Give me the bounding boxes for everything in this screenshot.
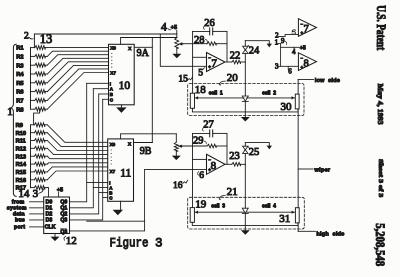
- label 24: [248, 45, 260, 56]
- wire output down to cell 1: [244, 62, 246, 96]
- multiplexer U10 box: [109, 44, 135, 105]
- margin patent number: [373, 223, 387, 266]
- svg-text:1: 1: [275, 39, 279, 47]
- label pin 4: [292, 48, 296, 56]
- brace terminal 1: [11, 44, 17, 196]
- svg-text:+5: +5: [57, 187, 63, 193]
- wire tap R3 to 9A X2: [47, 55, 108, 65]
- svg-text:X: X: [128, 46, 132, 51]
- label 23: [229, 151, 240, 162]
- label 6: [198, 171, 205, 181]
- wire data bus D0: [30, 201, 44, 203]
- multiplexer U11 box: [108, 139, 134, 201]
- wire tap R9 to 9B X0: [47, 125, 107, 143]
- wire tap R2 to 9A X1: [47, 51, 108, 56]
- wire output down to cell 3: [244, 164, 246, 208]
- svg-text:21: 21: [227, 186, 238, 198]
- svg-text:25: 25: [249, 147, 259, 158]
- svg-text:4: 4: [161, 22, 167, 34]
- svg-text:27: 27: [203, 120, 214, 131]
- label cell 2: [262, 91, 276, 97]
- svg-text:port: port: [14, 225, 25, 231]
- svg-text:5,208,548: 5,208,548: [373, 223, 387, 266]
- register U12 box: [44, 197, 70, 234]
- wire pot 15 to ground: [176, 48, 178, 54]
- svg-text:29: 29: [193, 135, 204, 146]
- comparator 7 designator: [304, 24, 309, 35]
- resistor 28: [193, 42, 227, 46]
- wire tap R8 to 9A X7: [47, 73, 108, 110]
- svg-text:cell 2: cell 2: [262, 91, 276, 97]
- mux 9A pin label X0: [110, 45, 116, 50]
- text from: [12, 199, 25, 205]
- svg-text:28: 28: [194, 35, 205, 46]
- wire +5 to pot 15: [176, 30, 178, 37]
- svg-text:13: 13: [40, 32, 53, 46]
- resistor R16: [16, 178, 48, 184]
- wire tap R10 to 9B X1: [47, 133, 107, 147]
- wire wiper bus: [297, 80, 299, 232]
- svg-text:2: 2: [24, 31, 29, 41]
- register Q3-bar label: [60, 229, 67, 236]
- svg-text:C: C: [109, 196, 113, 201]
- wire wiper node ch2: [180, 145, 192, 147]
- wire rail to pot 16: [121, 134, 177, 139]
- margin date: [376, 84, 385, 125]
- wire to op-amp 8 -input: [192, 158, 206, 160]
- svg-text:Sheet 3 of 3: Sheet 3 of 3: [377, 159, 384, 197]
- node 13 label: [40, 32, 53, 46]
- svg-text:X7: X7: [110, 70, 116, 75]
- svg-text:X0: X0: [110, 45, 116, 50]
- ground register: [51, 237, 60, 242]
- text data: [13, 212, 25, 218]
- svg-text:X0: X0: [110, 142, 116, 147]
- svg-text:9: 9: [281, 37, 285, 45]
- wire vertical bus A: [151, 38, 153, 143]
- op-amp U8: [207, 154, 226, 174]
- svg-text:R14: R14: [16, 162, 27, 168]
- wire op-amp 8 output: [225, 163, 232, 165]
- wire pin 2 to comparator 7: [278, 34, 298, 36]
- label 28: [194, 35, 207, 46]
- potentiometer 15: [175, 38, 179, 49]
- svg-text:U.S. Patent: U.S. Patent: [374, 5, 388, 51]
- svg-text:+5: +5: [300, 45, 306, 51]
- resistor R1: [16, 46, 47, 52]
- wire feedback right vertical: [226, 31, 228, 62]
- node 9 label: [281, 37, 287, 45]
- wire series bus left upper: [30, 48, 32, 110]
- wire select Q3 to mux pins: [70, 99, 109, 220]
- svg-text:30: 30: [281, 101, 293, 113]
- svg-text:R3: R3: [16, 63, 23, 69]
- ground pot 16: [172, 156, 181, 161]
- power +5 upper: [171, 25, 177, 31]
- svg-text:1: 1: [7, 106, 13, 118]
- svg-text:C: C: [110, 97, 114, 102]
- mux 9A select pin labels: [110, 81, 114, 102]
- label pin 2: [275, 31, 279, 39]
- wire to op-amp 8 +input: [145, 168, 207, 170]
- label 25: [248, 147, 259, 158]
- label pin 3: [275, 62, 279, 70]
- wire select Q0 to mux pins: [70, 83, 109, 202]
- label cell 1: [209, 91, 223, 97]
- mux 9A pin label X7: [110, 70, 116, 75]
- wire feedback left vertical: [192, 31, 194, 93]
- op-amp 8 designator: [211, 160, 217, 172]
- wire tap R5 to 9A X4: [47, 62, 108, 83]
- resistor R14: [16, 162, 48, 168]
- svg-text:B: B: [110, 92, 113, 97]
- svg-text:May 4, 1993: May 4, 1993: [376, 84, 385, 125]
- wire clamp to wiper arrow ch2: [245, 143, 269, 146]
- svg-text:X7: X7: [110, 169, 116, 174]
- svg-text:X: X: [128, 141, 132, 146]
- svg-text:R9: R9: [16, 123, 23, 129]
- resistor R4: [16, 72, 47, 78]
- wiper tap arrow ch1: [267, 44, 272, 48]
- svg-text:9A: 9A: [137, 48, 150, 59]
- wire rail down to R1: [33, 34, 35, 48]
- svg-text:7: 7: [304, 24, 309, 35]
- mux 9A designator 10: [119, 80, 131, 92]
- label 9B: [140, 146, 152, 157]
- svg-text:Q3: Q3: [60, 218, 67, 224]
- resistor R11: [16, 139, 48, 145]
- svg-text:high side: high side: [316, 231, 344, 237]
- svg-text:R15: R15: [16, 170, 26, 176]
- svg-text:R16: R16: [16, 178, 26, 184]
- wire vertical B to op-amp 7 +input: [160, 34, 206, 66]
- wire clamp to wiper arrow ch1: [245, 41, 269, 44]
- resistor cell 4: [295, 208, 299, 223]
- svg-text:15: 15: [178, 75, 188, 85]
- op-amp 7 designator: [211, 57, 217, 69]
- svg-text:9B: 9B: [140, 146, 152, 157]
- svg-text:18: 18: [195, 84, 207, 96]
- wire diode row 2 to ground: [244, 213, 246, 230]
- svg-text:A: A: [110, 87, 114, 92]
- mux 9A ground: [116, 105, 127, 113]
- capacitor 27: [192, 130, 227, 137]
- label 18: [195, 84, 207, 96]
- svg-text:bus: bus: [15, 218, 25, 224]
- svg-text:R1: R1: [16, 46, 23, 52]
- svg-text:I: I: [110, 81, 111, 86]
- resistor R7: [16, 98, 47, 104]
- wire output junction up: [244, 53, 246, 62]
- ground pot 15: [172, 54, 181, 59]
- power +5 comparator: [300, 45, 306, 51]
- svg-text:+5: +5: [171, 25, 177, 31]
- wire feedback left vertical ch2: [191, 133, 193, 207]
- wire pot 16 to ground: [175, 151, 177, 155]
- pot 15 wiper arrow: [179, 42, 183, 45]
- resistor R15: [16, 170, 48, 176]
- label pin 5 curl: [292, 30, 296, 34]
- svg-text:8: 8: [304, 58, 309, 69]
- wire diode row 1 to ground: [244, 101, 246, 117]
- wire +5 row: [281, 47, 299, 50]
- comparator U7b: [298, 19, 316, 37]
- wire select Q2 to mux pins: [70, 94, 109, 214]
- mux 9B ground: [113, 201, 124, 215]
- margin U.S. Patent: [374, 5, 388, 51]
- terminal low side: [298, 78, 340, 84]
- wire feedback right vertical ch2: [226, 133, 228, 164]
- wire stub over 9A to pot 15: [121, 38, 177, 45]
- mux 9A output pin X: [128, 46, 132, 51]
- svg-text:R7: R7: [16, 99, 23, 105]
- wiper tap arrow ch2: [267, 146, 272, 150]
- resistor 22: [232, 60, 246, 64]
- wire staircase to op-amp 8 input: [87, 169, 145, 221]
- wire tap R14 to 9B X5: [47, 163, 107, 164]
- register CLK label: [45, 224, 56, 230]
- diode pair 24: [243, 41, 248, 54]
- svg-text:12: 12: [66, 235, 77, 247]
- label 12: [64, 235, 77, 247]
- wire Q3-bar run: [70, 221, 145, 231]
- label 9A: [137, 48, 150, 59]
- ground cell row 2: [241, 230, 250, 235]
- svg-text:8: 8: [211, 160, 217, 172]
- wire clk: [30, 226, 44, 228]
- svg-text:23: 23: [229, 151, 240, 162]
- label 21: [219, 186, 237, 200]
- svg-text:22: 22: [230, 50, 241, 61]
- caption Figure 3: [110, 237, 163, 251]
- svg-text:24: 24: [249, 45, 260, 56]
- label cell 4: [262, 204, 276, 210]
- resistor R17: [16, 186, 48, 192]
- svg-text:CLK: CLK: [45, 224, 56, 230]
- label 20: [219, 72, 238, 86]
- svg-text:26: 26: [204, 18, 215, 29]
- wire series bus left lower: [30, 125, 32, 188]
- svg-text:system: system: [7, 205, 27, 211]
- mux 9B output pin X: [128, 141, 132, 146]
- label 15: [178, 75, 192, 85]
- resistor R8: [16, 107, 47, 113]
- power +5 register: [57, 187, 63, 197]
- svg-text:R11: R11: [16, 139, 26, 145]
- node 1 label: [7, 106, 13, 118]
- svg-text:11: 11: [120, 168, 131, 180]
- wire data bus D2: [30, 213, 44, 215]
- wire comparator bus vertical: [280, 44, 282, 67]
- svg-text:R4: R4: [16, 72, 24, 78]
- svg-text:low side: low side: [315, 78, 340, 84]
- svg-text:6: 6: [199, 171, 204, 181]
- svg-text:19: 19: [195, 199, 207, 211]
- wire data bus D1: [30, 207, 44, 209]
- resistor R13: [16, 154, 48, 160]
- svg-text:Figure: Figure: [110, 237, 149, 251]
- wire series link R8-R9: [34, 109, 40, 125]
- dashed cell box 1-2: [188, 84, 304, 116]
- mux 9A input dots: [111, 53, 112, 68]
- label 3 bus: [33, 188, 44, 200]
- potentiometer 16: [174, 134, 178, 151]
- diode cell row 2: [242, 208, 248, 213]
- label pin 6: [288, 67, 292, 75]
- terminal high side: [298, 231, 344, 237]
- wire select Q1 to mux pins: [70, 89, 109, 208]
- resistor R2: [16, 54, 47, 60]
- label 26: [203, 18, 214, 29]
- wire tap R7 to 9A X6: [47, 69, 108, 101]
- svg-text:data: data: [13, 212, 25, 218]
- svg-text:cell 4: cell 4: [262, 204, 276, 210]
- wire register ground: [54, 234, 56, 237]
- op-amp U7: [207, 53, 226, 72]
- resistor cell 2: [295, 94, 299, 109]
- wire tap R1 to 9A X0: [47, 47, 108, 49]
- arrow cell 2: [247, 96, 295, 99]
- text system: [7, 205, 27, 211]
- label 5: [198, 68, 205, 79]
- label 29: [193, 135, 206, 146]
- svg-text:R5: R5: [16, 81, 23, 87]
- svg-text:4: 4: [292, 48, 296, 56]
- arrow cell 1: [195, 96, 244, 99]
- label cell 3: [211, 204, 225, 210]
- mux 9B input dots: [111, 149, 112, 164]
- capacitor 26: [193, 28, 227, 35]
- wire op-amp 7 output: [225, 61, 232, 63]
- resistor R5: [16, 81, 47, 87]
- svg-text:16: 16: [173, 181, 183, 191]
- mux 9B pin label X0: [110, 142, 116, 147]
- label 31: [279, 213, 290, 225]
- wire mux 9B output X: [134, 142, 153, 144]
- wire wiper node ch1: [180, 43, 192, 45]
- label pin 1: [275, 39, 281, 47]
- mux 9B select pin labels: [109, 180, 113, 200]
- text bus: [15, 218, 25, 224]
- svg-text:D3: D3: [46, 218, 53, 224]
- terminal wiper: [298, 167, 331, 173]
- label 19: [195, 199, 207, 211]
- label 14: [18, 188, 30, 200]
- svg-text:from: from: [12, 199, 25, 205]
- svg-text:6: 6: [288, 67, 292, 75]
- svg-text:20: 20: [227, 72, 239, 84]
- wire output junction up ch2: [244, 153, 246, 164]
- wire cell row 1 bottom rail: [192, 108, 298, 112]
- comparator U8b: [298, 53, 316, 71]
- resistor R12: [16, 146, 48, 152]
- wire tap R6 to 9A X5: [47, 65, 108, 91]
- arrow cell 4: [247, 211, 295, 214]
- wire data bus D3: [30, 219, 44, 221]
- wire tap R15 to 9B X6: [47, 167, 107, 172]
- register D input labels: [46, 200, 53, 224]
- node 2 top terminal label: [24, 31, 33, 41]
- resistor R6: [16, 90, 47, 96]
- margin sheet: [377, 159, 384, 197]
- svg-text:10: 10: [119, 80, 131, 92]
- svg-text:R10: R10: [16, 131, 26, 137]
- dashed cell box 3-4: [188, 197, 305, 229]
- wire tap R12 to 9B X3: [47, 148, 107, 154]
- resistor 23: [232, 163, 246, 167]
- wire tap R16 to 9B X7: [47, 171, 107, 180]
- diode pair 25: [243, 143, 248, 154]
- resistor cell 1: [190, 93, 194, 108]
- resistor R9: [16, 123, 48, 129]
- ground cell row 1: [241, 117, 250, 122]
- svg-text:R6: R6: [16, 90, 23, 96]
- wire to op-amp 7 -input: [193, 56, 207, 58]
- svg-text:cell 1: cell 1: [209, 91, 223, 97]
- svg-text:7: 7: [211, 57, 217, 69]
- svg-text:cell 3: cell 3: [211, 204, 225, 210]
- svg-text:wiper: wiper: [314, 167, 331, 173]
- text port: [14, 225, 25, 231]
- wire top rail from terminal 2: [34, 33, 176, 35]
- label 4: [161, 22, 171, 34]
- svg-text:R2: R2: [16, 55, 23, 61]
- wire R17 bottom to register top: [47, 188, 48, 197]
- register Q output labels: [60, 200, 67, 224]
- svg-text:3: 3: [33, 188, 39, 200]
- mux 9B pin label X7: [110, 169, 116, 174]
- svg-text:3: 3: [155, 237, 163, 251]
- resistor 29: [182, 144, 227, 148]
- wire tap R13 to 9B X4: [47, 156, 107, 159]
- svg-text:R13: R13: [16, 154, 26, 160]
- pot 16 wiper arrow: [178, 145, 182, 148]
- arrow cell 3: [195, 211, 244, 214]
- diode cell row 1: [242, 96, 248, 101]
- wire tap R4 to 9A X3: [47, 58, 108, 74]
- label 22: [230, 50, 241, 61]
- mux 9B designator 11: [120, 168, 131, 180]
- label 27: [202, 120, 213, 131]
- resistor R3: [16, 63, 47, 69]
- wire tap R11 to 9B X2: [47, 141, 107, 151]
- comparator 8 designator: [304, 58, 309, 69]
- label 30: [281, 101, 293, 113]
- label 16: [173, 180, 188, 191]
- resistor cell 3: [190, 208, 194, 223]
- svg-text:R8: R8: [16, 107, 23, 113]
- wire mux 9A output X: [134, 46, 152, 48]
- wire pin 3 to comparator 8: [278, 66, 298, 69]
- svg-text:R12: R12: [16, 146, 26, 152]
- svg-text:31: 31: [279, 213, 290, 225]
- wire cell row 2 bottom rail: [192, 222, 298, 225]
- resistor R10: [16, 131, 48, 137]
